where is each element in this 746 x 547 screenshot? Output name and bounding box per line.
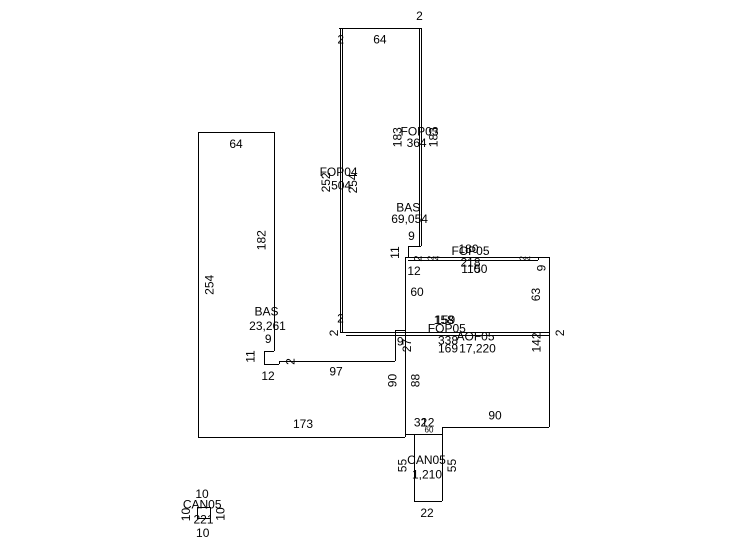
wall left BAS notch step up xyxy=(279,361,281,364)
svg-text:1,210: 1,210 xyxy=(412,468,442,482)
wall FOP05 upper strip bottom xyxy=(408,260,538,262)
wall tall BAS inner right (FOP03 strip) xyxy=(419,28,421,246)
svg-text:69,054: 69,054 xyxy=(391,212,428,226)
wall bottom edge of left BAS xyxy=(198,437,405,439)
svg-text:64: 64 xyxy=(229,137,243,151)
svg-text:10: 10 xyxy=(196,526,210,540)
wall CAN05 right edge xyxy=(442,427,444,501)
wall step down to FOP05 strip xyxy=(408,246,410,257)
wall AOF bottom 90-ft edge xyxy=(442,427,549,429)
svg-text:2: 2 xyxy=(284,358,298,365)
wall FOP03 strip bottom end xyxy=(408,246,421,248)
svg-text:88: 88 xyxy=(409,374,423,388)
svg-text:17,220: 17,220 xyxy=(459,342,496,356)
wall left BAS left edge xyxy=(198,132,200,437)
svg-text:12: 12 xyxy=(261,369,275,383)
wall right edge of middle/AOF section xyxy=(549,257,551,427)
wall left BAS notch left xyxy=(264,351,266,364)
svg-text:2: 2 xyxy=(327,329,341,336)
svg-text:169: 169 xyxy=(438,342,458,356)
wall bottom of tall BAS / FOP05 lower strip top xyxy=(340,332,549,334)
wall CAN05 bottom edge xyxy=(414,501,442,503)
svg-text:4: 4 xyxy=(525,256,534,261)
svg-text:CAN05: CAN05 xyxy=(407,453,446,467)
wall tall BAS inner left (FOP04 strip) xyxy=(342,28,344,332)
wall left BAS notch bottom xyxy=(264,364,279,366)
svg-text:12: 12 xyxy=(407,264,421,278)
svg-text:9: 9 xyxy=(535,264,549,271)
svg-text:2: 2 xyxy=(337,33,344,47)
wall middle section left edge xyxy=(405,257,407,437)
tick FOP05 upper strip end cap xyxy=(538,257,540,260)
wall CAN05 top edge xyxy=(405,434,442,436)
svg-text:BAS: BAS xyxy=(254,305,278,319)
svg-text:11: 11 xyxy=(244,350,258,363)
wall small CAN05 square right xyxy=(210,507,212,518)
svg-text:364: 364 xyxy=(407,136,427,150)
svg-text:90: 90 xyxy=(386,374,400,388)
svg-text:27: 27 xyxy=(400,339,414,353)
svg-text:11: 11 xyxy=(388,246,402,259)
svg-text:221: 221 xyxy=(193,512,213,526)
wall top edge of left BAS xyxy=(198,132,274,134)
svg-text:90: 90 xyxy=(488,409,502,423)
svg-text:142: 142 xyxy=(529,332,543,352)
svg-text:22: 22 xyxy=(420,506,434,520)
wall tall BAS outer right xyxy=(421,28,423,246)
svg-text:55: 55 xyxy=(396,459,410,473)
svg-text:4: 4 xyxy=(433,255,442,260)
svg-text:2: 2 xyxy=(413,255,425,261)
wall left BAS right edge xyxy=(274,132,276,351)
wall small CAN05 square left xyxy=(197,507,199,518)
wall small CAN05 square bottom xyxy=(197,518,210,520)
svg-text:173: 173 xyxy=(293,417,313,431)
svg-text:9: 9 xyxy=(408,229,415,243)
svg-text:10: 10 xyxy=(214,507,228,521)
wall CAN05 left edge xyxy=(414,434,416,501)
wall top edge of tall BAS section xyxy=(339,28,421,30)
svg-text:2: 2 xyxy=(553,329,567,336)
svg-text:2: 2 xyxy=(337,312,344,326)
svg-text:60: 60 xyxy=(425,425,434,434)
svg-text:50: 50 xyxy=(474,262,488,276)
wall 97-ft connector xyxy=(279,361,395,363)
svg-text:55: 55 xyxy=(445,459,459,473)
wall FOP05 upper strip top xyxy=(405,257,549,259)
wall notch left edge xyxy=(395,330,397,361)
svg-text:10: 10 xyxy=(179,508,193,522)
svg-text:182: 182 xyxy=(254,230,268,250)
svg-text:254: 254 xyxy=(202,274,216,294)
svg-text:97: 97 xyxy=(329,365,343,379)
svg-text:64: 64 xyxy=(373,32,387,46)
svg-text:60: 60 xyxy=(410,285,424,299)
wall left BAS notch step xyxy=(264,351,274,353)
wall FOP05 lower strip bottom xyxy=(346,335,549,337)
svg-text:2: 2 xyxy=(416,9,423,23)
wall tall BAS outer left xyxy=(340,28,342,332)
svg-text:63: 63 xyxy=(529,288,543,302)
wall notch top between BAS sections xyxy=(395,330,405,332)
svg-text:183: 183 xyxy=(427,127,441,147)
wall small CAN05 square top xyxy=(197,507,210,509)
svg-text:504: 504 xyxy=(331,179,351,193)
svg-text:9: 9 xyxy=(265,332,272,346)
